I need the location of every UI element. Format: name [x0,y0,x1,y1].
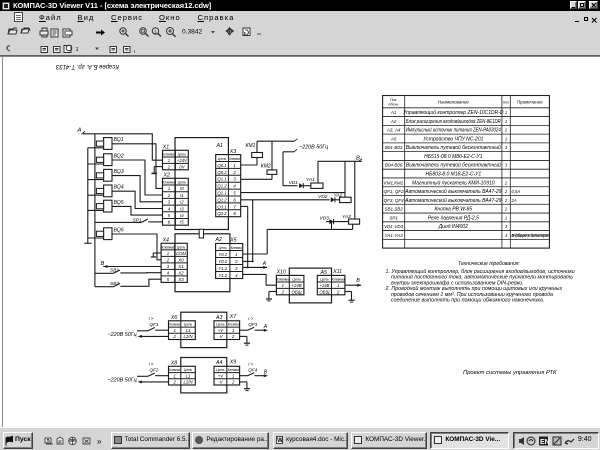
svg-text:X8: X8 [170,361,177,367]
svg-text:QF3: QF3 [248,322,257,327]
svg-text:Цепь: Цепь [178,180,187,184]
proximity sensor BQ6 [88,227,124,239]
svg-text:Q1.1: Q1.1 [217,177,227,182]
svg-text:X7: X7 [229,314,237,320]
svg-text:Импульсный источник питания ZE: Импульсный источник питания ZEN-PA03024 [406,127,501,134]
svg-text:В04-В06: В04-В06 [385,163,403,168]
svg-text:»: » [97,437,102,446]
svg-text:QF1, QF2: QF1, QF2 [384,189,405,194]
taskbar [0,427,600,450]
svg-text:I >: I > [149,361,154,366]
node A arrow from X5 pin3 [243,261,268,269]
wire VD2 to YA2 [335,199,340,201]
mains label [299,144,328,150]
wire YA3 to node B bus [354,161,356,219]
svg-text:~220В 50Гц: ~220В 50Гц [108,378,137,384]
svg-text:Цепь: Цепь [292,277,301,281]
svg-text:YA2: YA2 [334,192,343,198]
svg-text:BQ1: BQ1 [114,137,124,143]
svg-text:Клемма: Клемма [161,245,174,249]
wire X3 pin3 to KM2 [241,174,272,179]
svg-text:2: 2 [172,334,176,339]
svg-text:соединение выполнять при помощ: соединение выполнять при помощи обжимног… [391,298,544,304]
svg-text:1: 1 [505,136,507,141]
circuit breaker QF4 [240,361,268,377]
wire BQ6 output [112,234,161,260]
svg-text:А2: А2 [390,119,397,124]
wire VD1 to YA1 [303,185,311,187]
svg-text:VD1: VD1 [289,180,299,186]
svg-text:Клемма: Клемма [169,368,180,372]
svg-text:Y0.1: Y0.1 [218,252,227,257]
toolbars [0,23,600,56]
svg-text:X2: X2 [163,173,170,179]
svg-text:КМ1,КМ2: КМ1,КМ2 [384,180,404,185]
node A [77,128,86,135]
svg-text:А3: А3 [215,315,222,321]
svg-text:В: В [101,261,105,267]
svg-text:2: 2 [504,180,508,185]
svg-text:~220В 50Гц: ~220В 50Гц [299,144,328,150]
svg-text:гидрораспределителями: гидрораспределителями [512,232,551,237]
svg-text:L1: L1 [186,328,191,333]
svg-text:QF4: QF4 [248,368,257,373]
svg-text:3: 3 [505,145,508,150]
wire VD3 to return [331,223,333,229]
svg-text:2: 2 [167,193,171,198]
svg-text:КМ1: КМ1 [246,143,256,149]
circuit breaker QF3 [240,316,268,332]
svg-text:ОБЩ: ОБЩ [292,289,302,294]
svg-text:Q0.1: Q0.1 [217,163,227,168]
wire X3 pin7 down to node A line [241,206,248,267]
svg-text:0,5А: 0,5А [512,189,521,194]
svg-text:L1: L1 [186,373,191,378]
wire KM2 to mains [271,141,273,170]
connector X5 [216,238,243,279]
svg-text:X1: X1 [162,145,169,151]
wire mains stub2 down to VD1 row [283,152,298,186]
svg-text:L2/N: L2/N [184,380,194,385]
parts list table [383,96,551,249]
wire BQ5 output [112,206,163,215]
circuit breaker QF1 [137,316,169,331]
svg-text:А1: А1 [216,143,223,149]
svg-text:X9: X9 [229,360,236,366]
svg-text:QF2: QF2 [150,368,159,373]
svg-text:А2: А2 [215,237,222,243]
svg-text:Клемма: Клемма [162,152,175,156]
svg-text:А: А [262,261,267,267]
diode VD2 [318,194,335,203]
pushbutton SB1 [95,268,120,274]
svg-text:Ксарев Б.А. гр. Т-4133: Ксарев Б.А. гр. Т-4133 [55,63,119,69]
svg-text:I >: I > [149,316,154,321]
svg-text:BQ3: BQ3 [114,169,124,175]
svg-text:Кол: Кол [503,101,509,105]
svg-text:X4: X4 [162,237,169,243]
title bar [0,0,600,11]
svg-text:+24V: +24V [177,158,188,163]
wire BQ1 output [112,144,163,189]
svg-text:BQ6: BQ6 [114,227,124,233]
svg-text:VD2: VD2 [318,194,328,200]
connector X11 [317,269,345,295]
svg-text:Цепь: Цепь [178,152,187,156]
wire X5 pin1 to YA3 return [243,224,353,254]
svg-text:QF3, QF4: QF3, QF4 [384,198,405,203]
svg-text:Выключатель путевой бесконтакт: Выключатель путевой бесконтактный [406,144,501,151]
svg-text:Х1: Х1 [177,264,184,269]
svg-text:Х2: Х2 [177,270,184,275]
wire SB2 to X4 pin5 [120,279,161,286]
svg-text:Цепь: Цепь [184,368,193,372]
svg-text:А: А [263,324,268,330]
svg-text:Q3.2: Q3.2 [217,211,227,216]
svg-text:1: 1 [505,119,507,124]
proximity sensor BQ3 [88,169,124,181]
svg-text:X10: X10 [276,270,286,276]
proximity sensor BQ4 [88,185,124,197]
svg-text:2: 2 [167,164,171,169]
wire bus vertical 2 [84,148,91,244]
svg-text:X5: X5 [229,238,236,244]
svg-text:Наименование: Наименование [438,100,470,105]
svg-text:I2: I2 [180,200,184,205]
svg-text:Цепь: Цепь [218,246,227,250]
author label rotated [55,63,119,69]
mains stub 2 [283,149,297,151]
svg-text:YA1-YA3: YA1-YA3 [385,233,404,238]
wire mains return A4 [138,380,169,383]
svg-text:Автоматический выключатель ВА4: Автоматический выключатель ВА47-29 [404,188,502,195]
wire BQ4 output [112,191,163,208]
svg-text:2: 2 [504,198,508,203]
chassis ground at X1 [151,172,157,174]
svg-text:А: А [77,128,82,134]
technical requirements text [385,261,575,304]
svg-text:Q0.2: Q0.2 [217,170,227,175]
svg-text:I1: I1 [180,193,184,198]
svg-text:Y1.2: Y1.2 [218,273,227,278]
svg-text:Клемма: Клемма [228,368,239,372]
svg-text:Q1.2: Q1.2 [217,184,227,189]
svg-text:I5: I5 [180,220,184,225]
svg-text:1: 1 [505,215,507,220]
pushbutton SB2 [95,281,120,287]
svg-text:2: 2 [504,128,508,133]
svg-text:Цепь: Цепь [216,323,225,327]
svg-text:I3: I3 [180,206,184,211]
svg-text:А1: А1 [390,110,397,115]
svg-text:Примечание: Примечание [517,100,543,105]
solenoid YA2 [334,192,352,202]
svg-text:2: 2 [172,380,176,385]
svg-text:Клемма: Клемма [332,277,345,281]
wire YA2 row to X5 pin2 [243,200,254,263]
svg-text:Цепь: Цепь [320,277,329,281]
svg-text:EN: EN [540,439,550,446]
node B [101,261,108,268]
svg-text:Цепь: Цепь [184,323,193,327]
svg-text:Х0: Х0 [177,257,184,262]
contactor coil KM2 [261,163,277,174]
mains label at A3 [108,332,137,338]
project caption [463,370,557,376]
svg-text:В: В [356,278,360,284]
connector X10 [276,270,304,295]
wire chassis at X9 [240,382,250,391]
svg-text:VD1-VD3: VD1-VD3 [384,224,404,229]
svg-text:Клемма: Клемма [162,180,175,184]
svg-text:2: 2 [504,189,508,194]
node B arrow from X11 pin1 [345,278,362,287]
wire KM1 to mains [257,139,298,153]
power supply block A4 [181,358,227,393]
wire BQ3 output [112,176,163,202]
svg-text:В01-В03: В01-В03 [385,145,403,150]
svg-text:Цепь: Цепь [177,245,186,249]
svg-text:X11: X11 [332,269,342,275]
svg-text:2: 2 [504,207,508,212]
contactor coil KM1 [246,143,263,158]
svg-text:3: 3 [505,163,508,168]
wire SB1 to X4 pin4 [120,272,161,274]
wire X3 pin6 row to VD2 [241,199,330,201]
proximity sensor BQ5 [88,200,124,212]
svg-text:Автоматический выключатель ВА4: Автоматический выключатель ВА47-29 [404,197,502,204]
wire YA2 to node B bus [344,161,346,197]
svg-text:НБ515-08.0 М80-Е2-С-У1: НБ515-08.0 М80-Е2-С-У1 [424,154,483,160]
proximity sensor BQ2 [88,153,124,165]
svg-text:Клемма: Клемма [229,157,240,161]
svg-text:В: В [264,369,268,375]
menu bar [0,11,600,23]
svg-text:ОБЩ: ОБЩ [319,289,329,294]
wire X10 pin2 to chassis [266,292,277,301]
wire X3 pin5 to YA2 [241,192,345,194]
svg-text:Устройство ЧПУ NC-201: Устройство ЧПУ NC-201 [423,135,483,142]
svg-text:QF1: QF1 [150,322,159,327]
svg-text:BQ2: BQ2 [114,153,124,159]
svg-text:А3, А4: А3, А4 [386,128,401,133]
svg-text:Х3: Х3 [177,277,184,282]
svg-text:I4: I4 [180,213,184,218]
svg-text:СОМ: СОМ [176,251,186,256]
svg-text:Y1.1: Y1.1 [218,266,227,271]
svg-text:Клемма: Клемма [276,277,289,281]
wire X11 pin2 to chassis [345,292,355,303]
connector X4 [161,237,187,282]
svg-text:2А: 2А [511,198,517,203]
diode VD1 [289,180,304,188]
svg-text:2: 2 [231,380,235,385]
svg-text:1: 1 [505,110,507,115]
svg-text:Кнопка PB W-85: Кнопка PB W-85 [434,207,472,213]
svg-text:Y0.2: Y0.2 [218,259,227,264]
wire BQ2 output [112,160,163,195]
svg-text:BQ4: BQ4 [114,185,124,191]
solenoid YA3 [342,214,360,224]
connector X1 [162,145,189,170]
connector X8 [169,361,196,386]
connector X6 [169,315,196,340]
connector X9 [214,360,240,386]
svg-text:Управляющий контроллер ZEN-10C: Управляющий контроллер ZEN-10C1DR-D [403,109,504,116]
wire mains return A3 [138,335,169,338]
svg-text:SP1: SP1 [389,215,398,220]
chassis ground at X4 pin1 [151,253,161,257]
sheet left edge [2,57,4,427]
svg-text:Клемма: Клемма [231,246,242,250]
svg-text:А5: А5 [390,136,397,141]
wire YA3 row [326,221,349,223]
wire bus vertical 1 [94,134,96,287]
svg-text:Проект системы управления РТК: Проект системы управления РТК [463,370,557,376]
connector X3 [216,149,241,217]
svg-text:X6: X6 [170,315,177,321]
connector X7 [214,314,240,340]
svg-text:SB1,SB2: SB1,SB2 [385,207,404,212]
svg-text:L2/N: L2/N [184,334,194,339]
wire X5 pin4 to X10 pin1 [243,274,277,285]
svg-text:X3: X3 [229,149,236,155]
svg-text:Технические требования:: Технические требования: [458,261,520,267]
svg-text:Q2.1: Q2.1 [217,191,227,196]
wire X1 pin2 to chassis [154,167,162,174]
pressure relay contact SP1 [95,218,163,224]
svg-text:Выключатель путевой бесконтакт: Выключатель путевой бесконтактный [406,162,501,169]
svg-text:Клемма: Клемма [228,323,239,327]
wire chassis at X7 [240,336,250,345]
svg-text:I0: I0 [180,186,184,191]
svg-text:YA1: YA1 [306,177,315,183]
controller block A1 [175,138,228,230]
svg-text:обозн.: обозн. [388,102,399,106]
svg-text:2: 2 [166,257,170,262]
svg-text:А4: А4 [215,360,222,366]
mains label at A4 [108,378,137,384]
CNC device block A5 [289,268,331,303]
svg-text:Q2.2: Q2.2 [217,197,227,202]
svg-text:Блок расширения входов/выходов: Блок расширения входов/выходов ZEN-8E1DR [406,119,501,125]
svg-text:Реле давления РД-2,5: Реле давления РД-2,5 [428,215,479,221]
svg-text:I >: I > [248,361,253,366]
svg-text:КМ2: КМ2 [261,163,271,169]
power supply block A3 [181,312,227,347]
connector X2 [162,173,188,226]
expansion block A2 [175,234,230,292]
wire node A to X1 pin1 [83,134,163,160]
svg-text:Диод IN4002: Диод IN4002 [438,224,469,230]
svg-text:2: 2 [231,334,235,339]
wire YA1 to node B bus [317,161,319,183]
proximity sensor BQ1 [88,137,124,149]
svg-text:+24В: +24В [292,283,302,288]
svg-text:I >: I > [248,316,253,321]
circuit breaker QF2 [137,361,169,376]
svg-text:YA3: YA3 [342,214,351,220]
svg-text:Цепь: Цепь [218,157,227,161]
svg-text:3: 3 [505,224,508,229]
link connector A1-A2 [199,229,203,238]
svg-text:BQ5: BQ5 [114,200,124,206]
wire X3 pin1 to KM1 [241,158,257,166]
svg-text:~220В 50Гц: ~220В 50Гц [108,332,137,338]
svg-text:Клемма: Клемма [169,323,180,327]
svg-text:Магнитный пускатель КМИ-10910: Магнитный пускатель КМИ-10910 [412,179,495,186]
node B bus top right [318,155,362,161]
diode VD3 [320,215,334,224]
sheet top edge [0,55,600,57]
svg-text:3: 3 [505,233,508,238]
solenoid YA1 [306,177,323,188]
svg-text:НБ803-8.0 М18-Е2-С-У1: НБ803-8.0 М18-Е2-С-У1 [425,171,481,177]
svg-text:VD3: VD3 [320,215,330,221]
svg-text:+24В: +24В [319,283,329,288]
svg-text:Поз.: Поз. [390,98,397,102]
svg-text:Q3.1: Q3.1 [217,204,227,209]
svg-text:Цепь: Цепь [216,368,225,372]
wire node B to X4 pin3 [103,266,161,268]
svg-text:2: 2 [336,289,340,294]
